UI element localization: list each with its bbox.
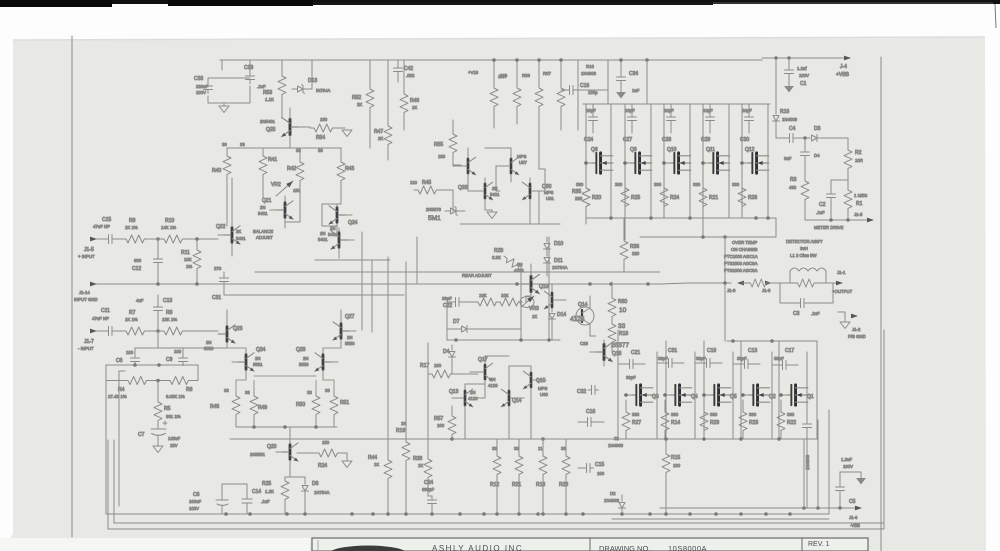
- transistor Q22: [216, 178, 246, 256]
- resistor R8: [148, 310, 218, 335]
- svg-text:100uF: 100uF: [189, 499, 202, 504]
- capacitor C14: [242, 484, 270, 514]
- rails top center: [578, 60, 647, 130]
- resistor R36: [620, 218, 640, 272]
- svg-text:1%: 1%: [186, 264, 192, 269]
- svg-text:OVER TEMP: OVER TEMP: [732, 240, 757, 245]
- resistor R9: [116, 218, 148, 243]
- resistor R2: [844, 138, 863, 186]
- svg-text:C21: C21: [631, 350, 640, 356]
- node bus balance quad: [227, 147, 341, 149]
- trimmer VR3: [520, 294, 539, 319]
- svg-text:D14: D14: [557, 312, 566, 318]
- svg-text:330: 330: [615, 182, 623, 187]
- svg-text:D7: D7: [453, 319, 460, 325]
- resistor R24: [297, 440, 347, 469]
- svg-text:D4: D4: [443, 349, 450, 355]
- svg-text:D13: D13: [308, 78, 317, 84]
- bottom signal bus: [106, 513, 829, 515]
- svg-text:MPS: MPS: [517, 154, 526, 159]
- rails right bottom: [804, 410, 829, 514]
- capacitor C13b cell4: [733, 348, 760, 369]
- svg-text:R10: R10: [165, 218, 174, 224]
- svg-text:DETECTOR ASS'Y: DETECTOR ASS'Y: [786, 239, 823, 244]
- svg-text:125uF: 125uF: [168, 436, 181, 441]
- svg-text:100: 100: [437, 423, 445, 428]
- resistor R14: [661, 400, 680, 439]
- svg-text:1K 1%: 1K 1%: [125, 317, 138, 322]
- wire lower link bus: [460, 191, 560, 224]
- capacitor C31b cell2: [657, 348, 684, 368]
- transistor Q28: [296, 347, 338, 380]
- svg-text:+V18: +V18: [468, 70, 479, 75]
- rail detector: [724, 237, 726, 341]
- svg-text:Q22: Q22: [216, 224, 226, 230]
- resistor R11: [181, 239, 201, 284]
- svg-text:R20: R20: [592, 195, 601, 201]
- resistor R54: [310, 117, 345, 141]
- svg-text:10pF: 10pF: [742, 108, 752, 113]
- resistor R50: [296, 390, 320, 427]
- svg-text:180: 180: [673, 463, 681, 468]
- node bus: [106, 365, 198, 381]
- svg-text:4123: 4123: [468, 396, 478, 401]
- svg-text:100V: 100V: [843, 464, 853, 469]
- svg-text:Q12: Q12: [745, 147, 755, 153]
- svg-text:1 MEG: 1 MEG: [854, 193, 868, 198]
- svg-text:J1-5: J1-5: [854, 212, 863, 217]
- resistor R22b: [777, 400, 796, 439]
- svg-text:33: 33: [618, 323, 626, 330]
- svg-text:33: 33: [561, 446, 566, 451]
- svg-text:R43: R43: [345, 166, 354, 172]
- connector J1-1 +OUTPUT: [832, 270, 853, 294]
- svg-text:C24: C24: [424, 480, 433, 486]
- connector J-4 +VBB: [836, 56, 851, 78]
- svg-text:U60: U60: [540, 392, 548, 397]
- svg-text:R14: R14: [671, 420, 680, 426]
- svg-text:C1: C1: [800, 81, 807, 87]
- svg-text:10K: 10K: [184, 257, 192, 262]
- rails bank2: [618, 330, 817, 450]
- resistor R57: [434, 406, 456, 439]
- mosfet Q1: [781, 385, 814, 405]
- capacitor C42: [394, 60, 415, 82]
- svg-text:C16: C16: [586, 409, 595, 415]
- svg-text:.1uF: .1uF: [261, 499, 270, 504]
- svg-text:2N: 2N: [255, 356, 261, 361]
- capacitor C29 cell4: [701, 104, 715, 143]
- svg-text:C28: C28: [662, 137, 671, 143]
- svg-text:Q14: Q14: [578, 302, 588, 308]
- svg-text:330: 330: [632, 412, 640, 417]
- resistor R18: [608, 320, 628, 352]
- svg-text:33: 33: [222, 142, 227, 147]
- svg-text:33: 33: [514, 446, 519, 451]
- svg-text:150: 150: [322, 440, 330, 445]
- svg-text:-VBB: -VBB: [850, 523, 860, 528]
- lower mid bus: [230, 438, 817, 440]
- svg-text:R16: R16: [536, 482, 545, 488]
- svg-text:C33: C33: [194, 76, 203, 82]
- capacitor C2: [816, 180, 848, 220]
- svg-text:R55: R55: [434, 142, 443, 148]
- capacitor C7: [138, 421, 181, 448]
- svg-text:110: 110: [410, 180, 417, 185]
- svg-text:R57: R57: [434, 416, 443, 422]
- capacitor C5: [836, 457, 867, 508]
- resistor R25b: [615, 182, 640, 240]
- svg-text:330: 330: [710, 412, 718, 417]
- svg-text:ADJUST: ADJUST: [256, 235, 273, 240]
- svg-text:U57: U57: [519, 160, 527, 165]
- svg-text:C7: C7: [138, 432, 145, 438]
- resistor R48: [210, 388, 240, 427]
- resistor R15: [662, 439, 681, 514]
- capacitor C11: [92, 308, 116, 336]
- bottom -VBB bus: [660, 507, 858, 509]
- svg-text:1uF: 1uF: [632, 88, 640, 93]
- svg-text:R15: R15: [671, 455, 680, 461]
- resistor R42: [287, 148, 304, 200]
- bottom frame line outer: [108, 528, 884, 530]
- svg-text:2N: 2N: [206, 340, 212, 345]
- svg-text:Q15: Q15: [536, 378, 546, 384]
- svg-text:100: 100: [126, 350, 134, 355]
- ink dot artifact: [248, 46, 251, 49]
- left feedback rail: [105, 365, 107, 514]
- wire quad links: [285, 200, 341, 226]
- resistor R37: [543, 60, 565, 130]
- svg-text:C4: C4: [789, 126, 796, 132]
- svg-text:10pF: 10pF: [703, 108, 713, 113]
- transistor Q33: [453, 148, 476, 191]
- svg-text:33: 33: [240, 142, 245, 147]
- svg-text:Q24: Q24: [348, 220, 358, 226]
- svg-text:C17: C17: [785, 348, 794, 354]
- svg-text:1N4963: 1N4963: [604, 498, 620, 503]
- svg-text:.1uF: .1uF: [816, 210, 825, 215]
- svg-text:D8: D8: [312, 481, 319, 487]
- title block: [312, 538, 868, 551]
- transistor Q23: [204, 310, 243, 351]
- svg-text:C15: C15: [102, 217, 111, 223]
- resistor R53: [263, 60, 286, 118]
- svg-text:D3: D3: [814, 126, 821, 132]
- svg-text:3uF: 3uF: [784, 156, 792, 161]
- mid bus upper: [255, 271, 660, 273]
- zener D10: [544, 237, 564, 249]
- svg-text:47uF NP: 47uF NP: [93, 224, 110, 229]
- ground: [219, 106, 229, 113]
- svg-text:100V: 100V: [189, 506, 199, 511]
- label balance adjust: [253, 229, 273, 240]
- wire driver links: [453, 148, 545, 224]
- svg-text:39pF: 39pF: [696, 356, 706, 361]
- svg-text:5401: 5401: [318, 237, 328, 242]
- svg-text:ASHLY AUDIO INC: ASHLY AUDIO INC: [432, 544, 523, 551]
- transistor Q18 26377: [590, 340, 629, 366]
- resistor R27b: [622, 400, 641, 439]
- svg-text:J1-14: J1-14: [79, 290, 90, 295]
- resistor R6: [150, 377, 198, 400]
- svg-text:10K: 10K: [501, 293, 509, 298]
- resistor R17: [420, 363, 478, 378]
- svg-text:5551: 5551: [253, 362, 263, 367]
- svg-text:11: 11: [538, 446, 543, 451]
- resistor R23b: [739, 400, 758, 439]
- svg-text:R50: R50: [296, 402, 305, 408]
- svg-text:1K: 1K: [412, 105, 417, 110]
- capacitor C15: [93, 217, 116, 244]
- rails bank1: [586, 104, 768, 237]
- svg-text:5M1: 5M1: [428, 215, 441, 222]
- svg-text:D10: D10: [554, 241, 563, 247]
- svg-text:C31: C31: [668, 348, 677, 354]
- diode D3: [797, 126, 849, 142]
- main mid bus input to VAS: [95, 283, 660, 285]
- bank1 top link bus: [583, 103, 770, 105]
- svg-text:1N4963: 1N4963: [608, 443, 624, 448]
- svg-text:5401: 5401: [258, 211, 268, 216]
- svg-text:680pF: 680pF: [422, 487, 435, 492]
- svg-text:IN754A: IN754A: [316, 88, 330, 93]
- svg-text:D4: D4: [814, 153, 820, 158]
- svg-text:R38: R38: [413, 456, 422, 462]
- resistor R46: [400, 60, 419, 130]
- svg-text:33: 33: [224, 388, 229, 393]
- svg-text:R33: R33: [522, 73, 530, 78]
- right drawing frame line: [881, 57, 884, 551]
- svg-text:D2: D2: [610, 491, 616, 496]
- svg-text:REAR ADJUST: REAR ADJUST: [462, 273, 492, 278]
- capacitor C16: [578, 409, 604, 427]
- svg-text:2K: 2K: [378, 136, 383, 141]
- svg-text:39pF: 39pF: [626, 375, 636, 380]
- Ashly logo oval: [330, 546, 406, 551]
- svg-text:R2: R2: [855, 150, 862, 156]
- resistor R19: [396, 421, 410, 514]
- svg-text:Q25: Q25: [266, 127, 276, 133]
- transistor Q19: [514, 262, 549, 296]
- svg-text:C9: C9: [166, 357, 173, 363]
- resistor R25: [262, 477, 290, 514]
- svg-text:1.2uf: 1.2uf: [797, 66, 807, 71]
- svg-text:1K 1%: 1K 1%: [125, 225, 138, 230]
- resistor R26 10K: [474, 293, 500, 306]
- svg-text:+VBB: +VBB: [836, 72, 850, 78]
- svg-text:R18: R18: [619, 331, 628, 337]
- svg-text:5550: 5550: [345, 341, 355, 346]
- svg-text:103: 103: [500, 73, 508, 78]
- svg-text:R49: R49: [258, 405, 267, 411]
- svg-text:R46: R46: [410, 98, 419, 104]
- resistor R47: [374, 60, 392, 160]
- wire bank1 to bus: [640, 218, 776, 237]
- svg-text:5550: 5550: [299, 362, 309, 367]
- svg-text:R51: R51: [340, 400, 349, 406]
- ground: [487, 212, 497, 219]
- svg-text:R11: R11: [181, 250, 190, 256]
- svg-text:+ INPUT: + INPUT: [78, 254, 95, 259]
- svg-text:9.09K 1%: 9.09K 1%: [166, 394, 185, 399]
- resistor R40: [212, 142, 231, 226]
- svg-text:2N: 2N: [347, 335, 353, 340]
- svg-text:2N: 2N: [320, 231, 326, 236]
- svg-text:33: 33: [296, 148, 301, 153]
- svg-text:330: 330: [787, 412, 795, 417]
- connector J1-6 -VBB: [849, 506, 862, 528]
- diode D16 1N4003: [561, 64, 608, 95]
- svg-text:39pF: 39pF: [737, 356, 747, 361]
- resistor R30: [490, 60, 506, 128]
- inductor L1: [790, 268, 826, 283]
- svg-text:REV. 1: REV. 1: [808, 541, 830, 548]
- svg-text:C30: C30: [740, 137, 749, 143]
- svg-text:100V: 100V: [799, 73, 809, 78]
- svg-text:680: 680: [134, 258, 142, 263]
- resistor R4: [106, 377, 150, 400]
- svg-text:J1-7: J1-7: [84, 339, 94, 345]
- svg-text:R53: R53: [263, 90, 272, 96]
- svg-text:Q19: Q19: [539, 284, 549, 290]
- svg-text:2N: 2N: [470, 390, 476, 395]
- svg-text:R19: R19: [396, 428, 405, 434]
- capacitor C1: [784, 58, 809, 93]
- transistor Q14b: [501, 380, 524, 439]
- svg-text:2K: 2K: [236, 229, 241, 234]
- svg-text:U01: U01: [546, 196, 554, 201]
- svg-text:R25: R25: [262, 481, 271, 487]
- svg-text:33: 33: [245, 390, 250, 395]
- svg-text:P/S GND: P/S GND: [848, 334, 866, 339]
- mosfet Q12: [742, 147, 769, 173]
- resistor R29: [700, 400, 719, 439]
- meter drive bus: [805, 218, 874, 230]
- svg-text:R42: R42: [287, 166, 296, 172]
- svg-text:1N754A: 1N754A: [314, 490, 330, 495]
- capacitor C24: [422, 480, 437, 514]
- svg-text:C11: C11: [101, 308, 110, 314]
- mid bus lower: [224, 294, 404, 296]
- svg-text:4125: 4125: [570, 316, 585, 323]
- svg-text:270: 270: [214, 266, 222, 271]
- transistor Q16: [544, 284, 566, 312]
- svg-text:R25: R25: [631, 195, 640, 201]
- resistor R1: [844, 186, 868, 220]
- transistor Q27: [333, 310, 356, 348]
- svg-text:33: 33: [492, 446, 497, 451]
- svg-text:C23: C23: [580, 341, 588, 346]
- diode D6 1N4963 vertical label: [805, 440, 810, 508]
- resistor R20: [576, 182, 601, 218]
- svg-text:Q17: Q17: [478, 357, 488, 363]
- svg-text:PTC1000 AGC1A: PTC1000 AGC1A: [724, 254, 758, 259]
- svg-text:J1-5: J1-5: [84, 247, 94, 253]
- resistor R41: [240, 142, 277, 198]
- detector assy label: [786, 239, 823, 258]
- svg-text:L1 2 Ohm 5W: L1 2 Ohm 5W: [790, 253, 817, 258]
- svg-text:33: 33: [325, 388, 330, 393]
- label 1N4963 bottom: [608, 436, 624, 448]
- diode D4: [443, 345, 456, 374]
- svg-text:C14: C14: [252, 489, 261, 495]
- wire input couple: [135, 331, 227, 348]
- svg-text:J-4: J-4: [840, 64, 847, 70]
- svg-text:R24: R24: [670, 195, 679, 201]
- svg-text:Q23: Q23: [233, 326, 243, 332]
- resistor R21b: [693, 182, 718, 218]
- top supply bus: [220, 59, 762, 61]
- svg-text:R48: R48: [210, 404, 219, 410]
- svg-text:10pF: 10pF: [586, 108, 596, 113]
- capacitor C9: [166, 348, 188, 366]
- transistor Q31: [468, 178, 500, 210]
- mosfet Q6: [586, 147, 613, 173]
- svg-text:C29: C29: [701, 137, 710, 143]
- ground: [342, 130, 352, 137]
- svg-text:330: 330: [671, 412, 679, 417]
- resistor R60: [608, 282, 627, 320]
- svg-text:3uH: 3uH: [800, 246, 808, 251]
- bottom frame line inner: [114, 522, 884, 524]
- svg-text:Q27: Q27: [345, 314, 355, 320]
- page right edge line: [995, 4, 996, 28]
- svg-text:330: 330: [749, 412, 757, 417]
- svg-text:R4: R4: [118, 387, 125, 393]
- svg-text:R24: R24: [318, 463, 327, 469]
- svg-text:13K 1%: 13K 1%: [162, 317, 177, 322]
- svg-text:2N5879: 2N5879: [426, 207, 442, 212]
- resistor R26b: [732, 182, 757, 218]
- svg-text:R17: R17: [420, 363, 429, 369]
- svg-text:931 1%: 931 1%: [166, 414, 181, 419]
- svg-text:26377: 26377: [611, 342, 629, 349]
- svg-text:R37: R37: [543, 71, 551, 76]
- svg-text:R41: R41: [268, 157, 277, 163]
- resistor R16: [536, 439, 547, 514]
- svg-text:J1-6: J1-6: [849, 515, 858, 520]
- svg-text:14K 1%: 14K 1%: [161, 225, 176, 230]
- svg-text:.1uF: .1uF: [811, 311, 820, 316]
- svg-text:3.3K: 3.3K: [492, 255, 501, 260]
- svg-text:R40: R40: [212, 168, 221, 174]
- mosfet Q4: [665, 385, 698, 405]
- resistor R52: [352, 60, 374, 148]
- svg-text:.1uF: .1uF: [257, 84, 266, 89]
- capacitor C13: [136, 295, 172, 331]
- svg-text:39pF: 39pF: [658, 356, 668, 361]
- resistor R5: [154, 381, 181, 425]
- transistor Q14 4125: [570, 296, 594, 336]
- resistor R24b: [654, 182, 679, 218]
- diode D7: [453, 319, 480, 333]
- rail: [521, 237, 549, 340]
- svg-text:15V: 15V: [170, 443, 178, 448]
- svg-text:PTS1500 AGC9A: PTS1500 AGC9A: [724, 261, 758, 266]
- svg-text:1N4003: 1N4003: [581, 71, 597, 76]
- svg-text:Q20: Q20: [267, 444, 277, 450]
- bottom bank top bus: [727, 340, 817, 342]
- svg-text:C15: C15: [595, 462, 604, 468]
- svg-text:1K: 1K: [532, 314, 537, 319]
- svg-text:330: 330: [732, 182, 740, 187]
- zener D11: [544, 250, 568, 276]
- resistor R10: [148, 218, 218, 243]
- svg-text:32: 32: [614, 436, 619, 441]
- svg-text:C13: C13: [163, 298, 172, 304]
- ground: [153, 446, 163, 453]
